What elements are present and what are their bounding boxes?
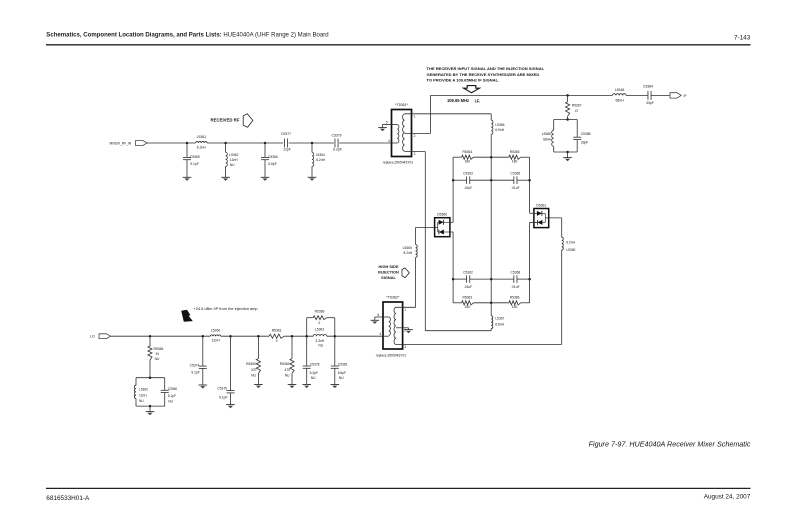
svg-text:R5369: R5369 — [315, 309, 325, 313]
wire lo3 — [284, 335, 313, 337]
svg-text:0: 0 — [318, 321, 320, 325]
central bus wire — [490, 134, 492, 303]
wire D5360 top right — [450, 221, 453, 223]
node rf1 — [186, 142, 189, 145]
svg-text:HIGH SIDE: HIGH SIDE — [379, 264, 399, 269]
svg-text:RECEIVED RF: RECEIVED RF — [211, 118, 240, 123]
svg-text:C5388: C5388 — [581, 132, 591, 136]
resistor R5366 — [149, 336, 151, 346]
svg-text:33pF: 33pF — [646, 101, 654, 105]
svg-text:R5365: R5365 — [510, 150, 520, 154]
inductor L5365 — [415, 227, 417, 244]
svg-text:3: 3 — [414, 152, 416, 156]
node top C left — [452, 179, 455, 182]
svg-text:180: 180 — [465, 305, 471, 309]
svg-text:TO PROVIDE A 109.65MHz IF SIGN: TO PROVIDE A 109.65MHz IF SIGNAL. — [427, 78, 500, 83]
wire rf input — [147, 142, 196, 144]
node central top R row — [490, 156, 493, 159]
svg-text:NU: NU — [230, 163, 235, 167]
capacitor C5362 — [453, 278, 467, 280]
svg-text:12nH: 12nH — [211, 339, 220, 343]
T5361 pin 5 wire — [383, 124, 398, 126]
svg-text:NU: NU — [311, 376, 316, 380]
diode pair D5361 — [534, 209, 549, 228]
node bottom C right — [528, 278, 531, 281]
svg-text:4: 4 — [388, 139, 390, 143]
ground for L5364 — [308, 176, 317, 178]
svg-text:2: 2 — [414, 134, 416, 138]
diode pair D5360 — [435, 218, 450, 237]
svg-text:6816533H01-A: 6816533H01-A — [46, 495, 90, 502]
wire lo1 — [111, 335, 211, 337]
svg-text:NU: NU — [285, 374, 290, 378]
svg-text:470: 470 — [251, 368, 257, 372]
svg-text:8.2nH: 8.2nH — [566, 240, 575, 244]
node lo tank bottom — [149, 405, 152, 408]
capacitor C5374 — [202, 336, 204, 366]
svg-text:7-143: 7-143 — [734, 35, 751, 42]
resistor R5361 — [269, 334, 284, 338]
ground for C5366 — [261, 176, 270, 178]
svg-text:D5361: D5361 — [536, 203, 546, 207]
node lo junction right — [334, 335, 337, 338]
wire D5361 right — [545, 217, 561, 219]
svg-text:C5363: C5363 — [463, 171, 473, 175]
ground C5375 — [226, 404, 235, 406]
svg-text:replace,2505443Y01: replace,2505443Y01 — [383, 161, 414, 165]
svg-text:R5367: R5367 — [572, 104, 582, 108]
node central bottom C row — [490, 278, 493, 281]
svg-text:68nH: 68nH — [615, 99, 624, 103]
svg-text:C5378: C5378 — [310, 362, 320, 366]
T5361 pin 4 wire — [392, 142, 398, 144]
svg-text:5: 5 — [386, 120, 388, 124]
ground for L5362 — [221, 176, 230, 178]
wire D5361 top left — [530, 212, 537, 214]
svg-text:C5369: C5369 — [190, 155, 200, 159]
svg-text:L5361: L5361 — [197, 135, 207, 139]
capacitor C5377 — [283, 139, 285, 148]
left vertical wire lower — [452, 232, 454, 303]
svg-text:L5362: L5362 — [229, 153, 238, 157]
wire rf2 — [207, 142, 283, 144]
svg-text:NU: NU — [168, 399, 173, 403]
capacitor C5381 — [334, 336, 336, 366]
svg-text:C5366: C5366 — [268, 155, 278, 159]
central bus inductor L5366a — [490, 114, 492, 120]
wire lo tank ground — [149, 406, 151, 412]
wire left loop vertical — [424, 152, 426, 331]
svg-text:47: 47 — [575, 109, 579, 113]
node central bottom R row — [490, 302, 493, 305]
capacitor C5363 — [453, 179, 467, 181]
svg-text:L5367: L5367 — [495, 317, 504, 321]
node lo C5374 — [202, 335, 205, 338]
node rf3 — [264, 142, 267, 145]
svg-text:3.3nH: 3.3nH — [315, 339, 324, 343]
node lo tank top — [149, 376, 152, 379]
node rf4 — [311, 142, 314, 145]
svg-text:D5360: D5360 — [437, 213, 447, 217]
footer rule — [46, 487, 751, 489]
svg-text:109.65 MHz: 109.65 MHz — [447, 98, 469, 103]
svg-text:Figure 7-97. HUE4040A Receiver: Figure 7-97. HUE4040A Receiver Mixer Sch… — [589, 439, 751, 448]
svg-text:.01uF: .01uF — [511, 285, 519, 289]
svg-text:*T5362*: *T5362* — [386, 296, 400, 300]
ground R5362 — [288, 384, 297, 386]
svg-text:C5384: C5384 — [643, 85, 653, 89]
svg-text:6.2pF: 6.2pF — [310, 371, 318, 375]
resistor R5367 — [567, 95, 569, 101]
capacitor C5366 — [264, 143, 266, 157]
svg-text:.01uF: .01uF — [464, 285, 472, 289]
node central top C row — [490, 179, 493, 182]
received rf arrow — [243, 114, 253, 128]
svg-text:LO: LO — [90, 335, 95, 339]
svg-text:12pF: 12pF — [283, 148, 291, 152]
T5362 secondary winding — [394, 307, 396, 344]
T5362 pin 5 wire — [375, 316, 389, 318]
svg-text:THE RECEIVER INPUT SIGNAL AND: THE RECEIVER INPUT SIGNAL AND THE INJECT… — [427, 66, 545, 71]
svg-text:R5362: R5362 — [280, 362, 290, 366]
T5361 pin 1 wire — [405, 113, 492, 115]
header rule — [46, 44, 751, 46]
capacitor C5365 — [491, 179, 514, 181]
T5361 secondary winding — [403, 114, 405, 151]
ground T5362 pin 5 — [371, 319, 380, 321]
T5362 pin 1 wire — [396, 306, 416, 308]
T5361 primary winding — [397, 125, 399, 143]
wire D5360 left — [416, 226, 438, 228]
svg-text:33pF: 33pF — [581, 141, 589, 145]
right vertical wire lower — [529, 222, 531, 302]
transformer T5361 — [392, 110, 412, 157]
wire if line — [431, 94, 613, 96]
inductor L5360 — [210, 335, 220, 336]
svg-text:NU: NU — [318, 344, 323, 348]
svg-text:180: 180 — [512, 159, 518, 163]
svg-text:9.1pF: 9.1pF — [191, 371, 199, 375]
node tank bottom — [566, 151, 569, 154]
svg-text:MIXER_RF_IN: MIXER_RF_IN — [110, 141, 132, 145]
svg-text:C5377: C5377 — [281, 132, 291, 136]
svg-text:6.2nH: 6.2nH — [316, 158, 325, 162]
wire if3 — [651, 94, 670, 96]
inductor L5369 — [561, 218, 563, 237]
svg-text:L5364: L5364 — [316, 153, 325, 157]
transformer T5362 — [383, 302, 403, 349]
svg-text:9.1pF: 9.1pF — [190, 162, 198, 166]
svg-text:180: 180 — [512, 305, 518, 309]
resistor R5369 parallel branch — [306, 318, 308, 337]
node lo junction left — [305, 335, 308, 338]
ground C5374 — [199, 384, 208, 386]
ground R5360 — [254, 384, 263, 386]
svg-text:470: 470 — [284, 368, 290, 372]
svg-text:6.2nH: 6.2nH — [197, 146, 207, 150]
svg-text:12nH: 12nH — [230, 158, 239, 162]
svg-text:C5381: C5381 — [338, 362, 348, 366]
svg-text:9.1pF: 9.1pF — [219, 395, 227, 399]
resistor R5365 — [491, 156, 509, 158]
note down arrow — [464, 86, 480, 93]
ground for C5369 — [183, 176, 192, 178]
svg-text:C5360: C5360 — [168, 387, 178, 391]
svg-text:SIGNAL: SIGNAL — [381, 275, 396, 280]
svg-text:5.1pF: 5.1pF — [168, 394, 176, 398]
capacitor C5369 — [186, 143, 188, 157]
capacitor C5375 — [230, 336, 232, 390]
capacitor C5368 — [491, 278, 514, 280]
wire D5361 bottom left — [530, 221, 538, 223]
capacitor C5384 — [647, 91, 649, 100]
injection amp black arrow — [181, 310, 193, 322]
svg-text:replace,2505043Y01: replace,2505043Y01 — [376, 354, 407, 358]
T5361 pin 3 wire — [405, 151, 426, 153]
node tank top — [566, 118, 569, 121]
svg-text:C5362: C5362 — [463, 270, 473, 274]
svg-text:L5366: L5366 — [542, 132, 551, 136]
svg-text:R5363: R5363 — [462, 295, 472, 299]
svg-text:R5360: R5360 — [246, 362, 256, 366]
node bottom C left — [452, 278, 455, 281]
resistor R5386 — [491, 302, 509, 304]
svg-text:R5366: R5366 — [154, 347, 164, 351]
svg-text:6.8pF: 6.8pF — [268, 162, 276, 166]
svg-text:L5360: L5360 — [211, 328, 221, 332]
svg-text:6.9nH: 6.9nH — [495, 128, 504, 132]
svg-text:GENERATED BY THE RECEIVE SYNTH: GENERATED BY THE RECEIVE SYNTHESIZER ARE… — [427, 72, 540, 77]
svg-text:0: 0 — [276, 339, 278, 343]
svg-text:NU: NU — [155, 357, 160, 361]
T5362 primary winding — [389, 317, 391, 335]
svg-text:L5369: L5369 — [566, 248, 575, 252]
high side injection arrow — [402, 268, 409, 278]
inductor L5361 — [196, 142, 208, 143]
svg-text:INJECTION: INJECTION — [378, 269, 399, 274]
wire tank to ground — [567, 152, 569, 158]
svg-text:R5386: R5386 — [510, 295, 520, 299]
svg-text:L5348: L5348 — [615, 88, 625, 92]
inductor L5362 — [225, 143, 227, 152]
svg-text:*T5361*: *T5361* — [395, 103, 409, 107]
node if R5367 — [566, 94, 569, 97]
svg-text:Schematics, Component Location: Schematics, Component Location Diagrams,… — [46, 32, 328, 38]
svg-text:L5362: L5362 — [139, 388, 148, 392]
svg-text:R5364: R5364 — [462, 150, 472, 154]
svg-text:C5379: C5379 — [332, 133, 342, 137]
resistor R5362 — [291, 336, 293, 358]
resistor R5364 — [453, 156, 462, 158]
tank circuit L5366 C5388 box — [554, 119, 578, 121]
inductor L5364 — [311, 143, 313, 152]
svg-text:6.8nH: 6.8nH — [495, 323, 504, 327]
svg-text:August 24, 2007: August 24, 2007 — [704, 494, 751, 501]
svg-text:1: 1 — [404, 308, 406, 312]
wire D5360 bottom right — [450, 231, 453, 233]
wire bottom loop horizontal — [425, 330, 491, 332]
tank circuit L5362a C5360 box — [136, 377, 165, 379]
svg-text:+24.5 dBm I/P from the injecti: +24.5 dBm I/P from the injection amp — [194, 306, 258, 311]
ground T5362 pin 2 — [404, 329, 413, 331]
svg-text:5.6pF: 5.6pF — [338, 371, 346, 375]
inductor L5368 — [613, 94, 627, 96]
node rf2 — [224, 142, 227, 145]
node lo R5366 — [149, 335, 152, 338]
wire lo4 — [327, 335, 383, 337]
svg-text:L5365: L5365 — [403, 246, 412, 250]
T5362 pin 3 wire — [396, 343, 562, 345]
svg-text:NU: NU — [339, 376, 344, 380]
capacitor C5378 — [306, 336, 308, 366]
ground T5361 pin 5 — [378, 127, 387, 129]
svg-text:12nH: 12nH — [139, 394, 147, 398]
wire rf4 — [339, 142, 391, 144]
svg-text:.01uF: .01uF — [511, 186, 519, 190]
svg-text:5: 5 — [377, 313, 379, 317]
svg-text:L5366: L5366 — [495, 123, 504, 127]
inductor L5363 — [313, 335, 327, 337]
ground C5381 — [331, 384, 340, 386]
svg-text:68nH: 68nH — [543, 138, 552, 142]
ground tank — [563, 157, 572, 159]
svg-text:3: 3 — [404, 345, 406, 349]
svg-text:1: 1 — [414, 114, 416, 118]
ground C5378 — [302, 384, 311, 386]
svg-text:I.F.: I.F. — [475, 98, 480, 103]
svg-text:8.2nH: 8.2nH — [403, 251, 412, 255]
node lo R5360 — [257, 335, 260, 338]
svg-text:C5368: C5368 — [511, 270, 521, 274]
svg-text:NU: NU — [251, 374, 256, 378]
svg-text:NU: NU — [139, 399, 144, 403]
left vertical wire upper — [452, 157, 454, 222]
capacitor C5379 — [334, 139, 336, 148]
svg-text:51: 51 — [156, 352, 160, 356]
right vertical wire upper — [529, 157, 531, 213]
wire lo2 — [221, 335, 270, 337]
svg-text:IF: IF — [684, 94, 687, 98]
svg-text:C5375: C5375 — [217, 387, 227, 391]
node lo C5375 — [229, 335, 232, 338]
svg-text:R5361: R5361 — [272, 328, 282, 332]
node top C right — [528, 179, 531, 182]
svg-text:C5374: C5374 — [190, 363, 200, 367]
svg-text:4: 4 — [379, 332, 381, 336]
resistor R5360 — [257, 336, 259, 358]
inductor L5367 — [490, 303, 492, 316]
T5362 pin 4 wire — [383, 335, 389, 337]
svg-text:.01uF: .01uF — [464, 186, 472, 190]
wire rf3 — [289, 142, 334, 144]
ground lo tank — [146, 411, 155, 413]
wire if2 — [626, 94, 648, 96]
svg-text:L5363: L5363 — [315, 328, 324, 332]
port IF out — [670, 93, 681, 98]
node lo R5362 — [291, 335, 294, 338]
T5361 pin 2 wire — [405, 132, 431, 134]
svg-text:C5365: C5365 — [511, 171, 521, 175]
svg-text:180: 180 — [465, 159, 471, 163]
svg-text:6.2pF: 6.2pF — [333, 148, 342, 152]
T5362 pin 2 wire — [396, 327, 409, 329]
resistor R5363 — [453, 302, 462, 304]
